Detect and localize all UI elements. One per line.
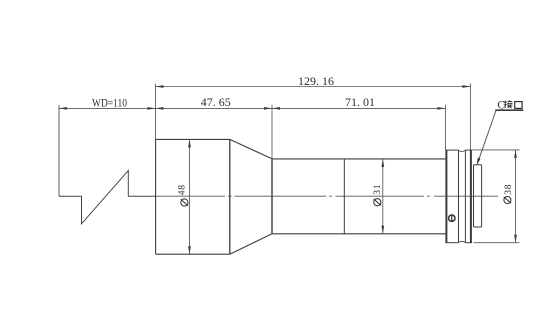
svg-text:38: 38 [504,184,514,195]
centerline (optical axis, dash-dot) [156,195,498,197]
break (zigzag) line to lens front [59,171,156,224]
extension line φ38 bottom [474,242,520,244]
dimension WD=110 [59,107,156,109]
C-mount thread ring [474,165,482,227]
extension line φ38 top [472,149,520,151]
object plane extension line (left, WD) [58,105,60,196]
extension line at flange rear (x=470.3) [469,83,471,149]
svg-text:129. 16: 129. 16 [298,74,334,88]
svg-text:31: 31 [373,184,383,195]
dimension 47.65 [156,107,273,109]
dimension φ38 (vertical) [515,150,517,243]
rear tube φ31 [272,159,446,234]
svg-text:WD=110: WD=110 [92,96,127,110]
mount flange block [445,150,472,243]
leader line to C-mount [478,110,497,163]
tube divider ring line [343,159,345,234]
extension line at flange front (x=445.4) [444,105,446,150]
hanzi 口 (drawn) [515,102,522,109]
svg-text:71. 01: 71. 01 [345,95,375,109]
set screw on flange [449,215,455,222]
svg-text:48: 48 [178,184,188,195]
hanzi 接 (drawn) [504,100,513,108]
svg-text:47. 65: 47. 65 [201,95,231,109]
dimension 71.01 [272,107,445,109]
extension line at cone end (x=272) [271,105,273,159]
extension line at front face (x=155.5) [155,84,157,140]
front barrel φ48 cylinder [156,139,230,254]
dimension φ48 (vertical) [189,139,191,254]
dimension 129.16 line [156,86,471,88]
cone transition φ48→φ31 [230,139,272,254]
dimension φ31 (vertical) [382,159,384,234]
